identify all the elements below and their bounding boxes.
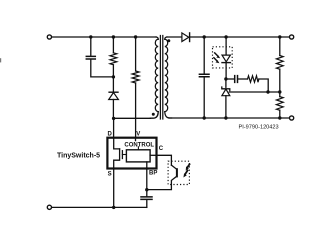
resistor R3 feedback	[248, 76, 259, 82]
wire: series capacitor to feedback resistor	[238, 78, 248, 80]
svg-text:TinySwitch-5: TinySwitch-5	[57, 153, 100, 160]
wire: zener anode to return rail	[225, 96, 227, 118]
svg-text:C: C	[159, 146, 164, 152]
edge artifact	[0, 58, 1, 62]
wire: clamp resistor to clamp junction	[112, 65, 114, 77]
junction: secondary return / zener branch	[224, 116, 227, 119]
resistor R4 divider top	[276, 56, 283, 70]
junction: input rail / clamp resistor	[112, 35, 115, 38]
junction: input rail / clamp capacitor	[89, 35, 92, 38]
optocoupler transistor arrows	[183, 164, 189, 177]
svg-text:PI-9790-120423: PI-9790-120423	[239, 125, 279, 131]
node: drain D	[112, 117, 115, 120]
junction: RC branch / feedback wire	[266, 90, 269, 93]
wire: secondary return rail	[169, 117, 289, 119]
junction: feedback wire / divider midpoint	[278, 90, 281, 93]
wire: clamp junction to diode cathode	[112, 77, 114, 92]
wire: bypass capacitor to return rail	[146, 200, 148, 208]
wire: feedback node to divider	[229, 91, 279, 93]
junction: clamp RC / diode	[112, 75, 115, 78]
junction: opto LED cathode / RC / zener	[224, 77, 227, 80]
svg-text:BP: BP	[149, 171, 157, 177]
wire: diode to output terminal	[190, 36, 289, 38]
optocoupler U2 LED	[222, 55, 230, 62]
wire: feedback resistor down to feedback wire	[259, 79, 268, 92]
wire: bias resistor to V pin	[135, 83, 137, 138]
junction: output rail / output capacitor	[203, 35, 206, 38]
svg-text:D: D	[108, 131, 113, 137]
optocoupler transistor dashed box	[168, 161, 189, 184]
wire: rail to bias resistor	[135, 37, 137, 71]
capacitor C4 bypass	[141, 197, 152, 200]
svg-text:CONTROL: CONTROL	[124, 142, 154, 148]
IC internal control-box link	[137, 147, 139, 150]
junction: input rail / bias resistor	[134, 35, 137, 38]
resistor R2 (V pin)	[132, 71, 139, 83]
resistor R5 divider bottom	[276, 97, 283, 111]
wire: feedback junction to zener cathode	[225, 79, 227, 87]
input terminal bottom-left	[47, 205, 51, 209]
junction: secondary return / output capacitor	[203, 116, 206, 119]
wire: output rail to divider top resistor	[279, 37, 281, 56]
transformer core	[160, 36, 162, 120]
wire: drain node to transformer primary	[114, 117, 151, 119]
resistor R1 clamp	[110, 53, 117, 65]
input terminal top-left	[47, 35, 51, 39]
junction: BP pin / opto emitter wire	[145, 188, 148, 191]
wire: output rail to output capacitor	[203, 37, 205, 74]
wire: output capacitor to return rail	[203, 77, 205, 118]
output terminal bottom-right	[290, 116, 294, 120]
svg-text:V: V	[136, 131, 140, 137]
capacitor C2 output	[199, 74, 209, 77]
wire: BP pin down	[146, 169, 148, 197]
wire: divider top resistor to midpoint	[279, 69, 281, 92]
IC internal control box	[126, 150, 150, 162]
transformer T1 secondary winding	[165, 37, 167, 39]
wire: rail to clamp resistor	[112, 37, 114, 53]
capacitor C3 feedback	[235, 76, 238, 83]
IC U1 TinySwitch-5 outline	[107, 138, 156, 169]
optocoupler LED arrows	[214, 53, 220, 63]
IC internal V line	[135, 138, 137, 141]
junction: source S / return rail	[112, 206, 115, 209]
transformer T1 primary winding	[156, 37, 158, 39]
optocoupler phototransistor	[147, 165, 177, 190]
wire: opto LED cathode to feedback junction	[225, 63, 227, 79]
output terminal top-right	[290, 35, 294, 39]
wire: S pin to return rail	[113, 169, 115, 208]
wire: feedback junction to series capacitor	[226, 78, 234, 80]
wire: divider bottom resistor to return rail	[279, 110, 281, 118]
wire: D pin to drain node	[113, 118, 115, 137]
wire: clamp capacitor to clamp junction	[91, 60, 114, 77]
junction: output rail / opto LED branch	[224, 35, 227, 38]
wire: C pin to optocoupler	[157, 155, 172, 165]
diode D2 output rectifier	[182, 33, 189, 42]
svg-text:S: S	[108, 172, 112, 178]
wire: top input rail	[52, 36, 156, 38]
IC internal BP line	[146, 162, 148, 169]
zener diode VR1	[222, 87, 230, 91]
wire: secondary top from transformer to diode	[167, 36, 182, 38]
capacitor C1 clamp	[86, 56, 95, 59]
junction: output rail / divider top	[278, 35, 281, 38]
wire: primary return rail	[52, 206, 147, 208]
transformer primary polarity dot	[152, 113, 155, 116]
optocoupler LED dashed box	[213, 47, 233, 68]
transformer secondary polarity dot	[167, 39, 170, 42]
diode D1 clamp	[109, 91, 118, 93]
wire: diode anode to drain node	[112, 100, 114, 119]
IC internal C line	[150, 154, 156, 156]
junction: secondary return / divider bottom	[278, 116, 281, 119]
wire: output rail to opto LED anode	[225, 37, 227, 55]
IC internal MOSFET	[114, 138, 120, 149]
wire: midpoint to divider bottom resistor	[279, 92, 281, 97]
wire: rail to clamp capacitor	[90, 37, 92, 56]
